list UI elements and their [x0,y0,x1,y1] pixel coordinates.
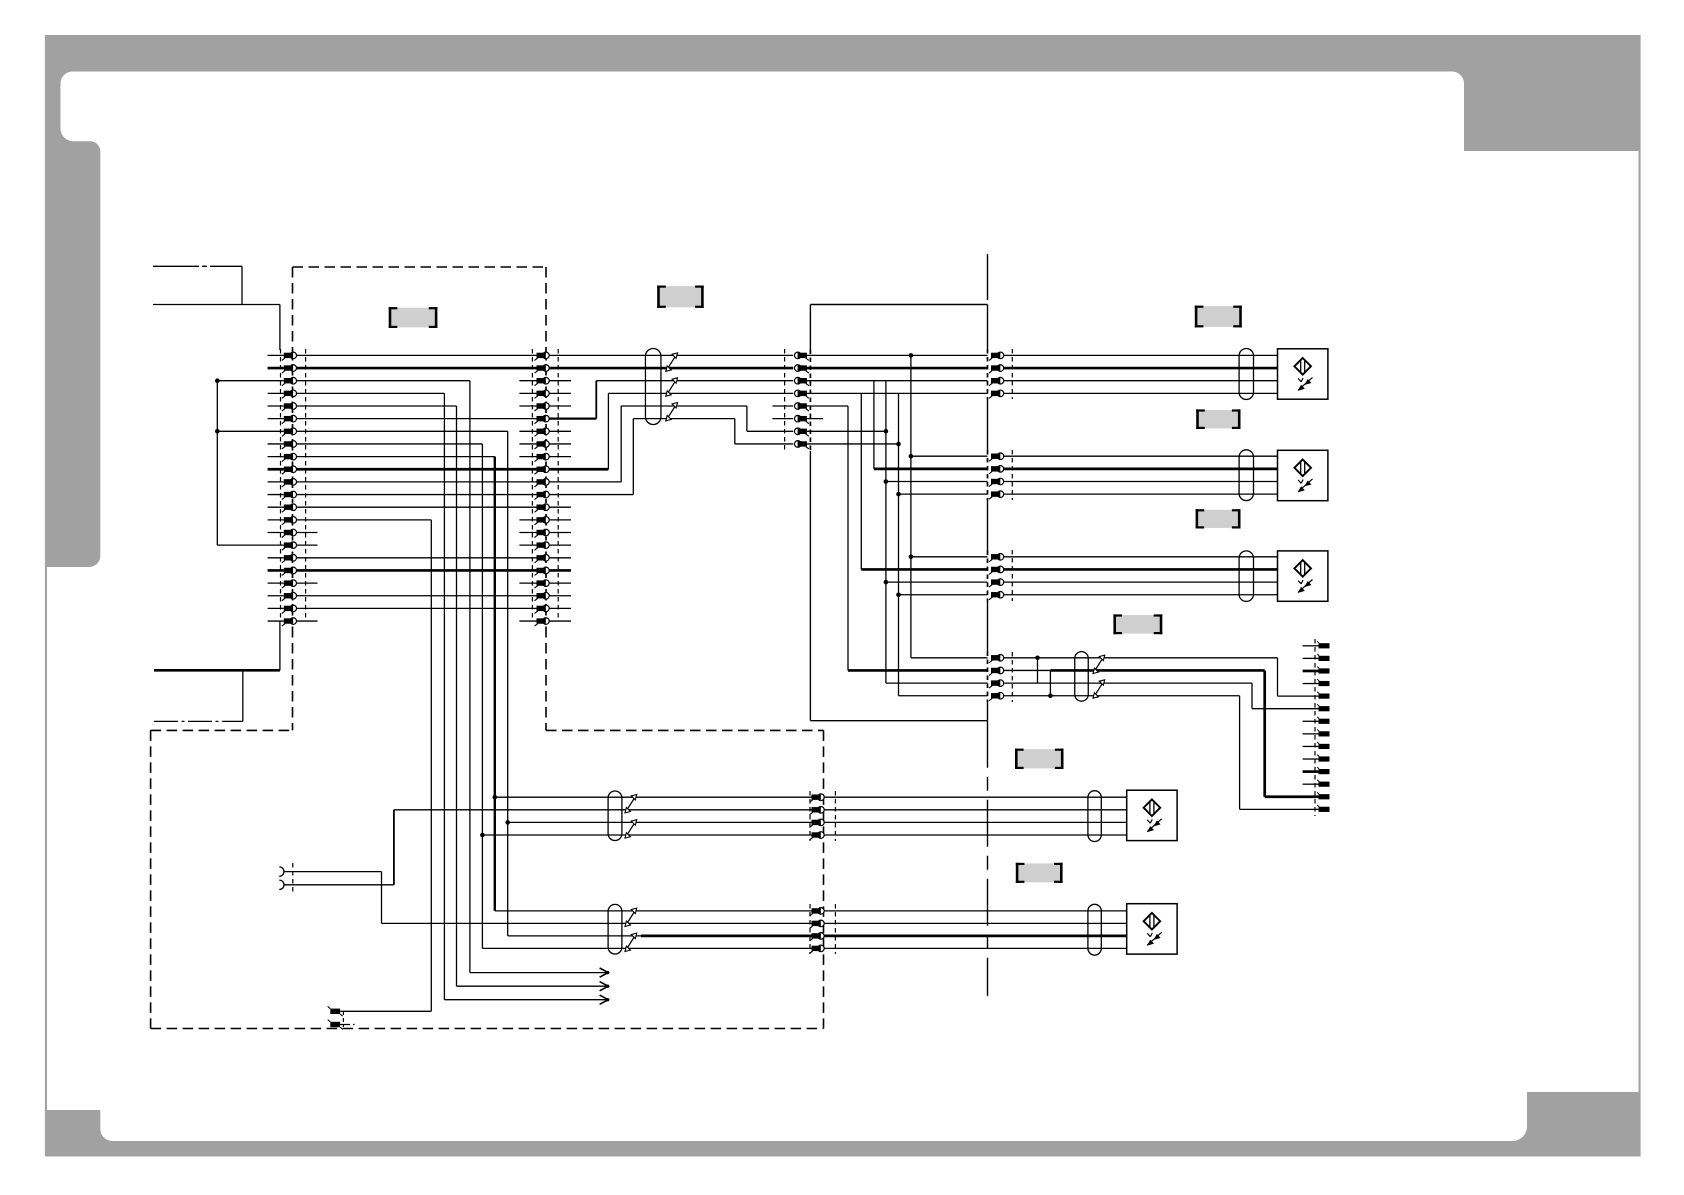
wire harness CN5 to sensor PS5 [824,911,1126,949]
signal arrows [444,968,609,1004]
photo-interrupter PS2 [1278,450,1328,500]
photo-interrupter PS4 [1127,790,1177,840]
connector CN3 [785,349,809,452]
cable clamp FB9 [1088,904,1101,955]
module M1 (off-page block, top-left) [153,266,280,670]
wire stubs CN3 left [772,406,793,419]
cable clamp FB6 [608,791,637,841]
terminal T1 [328,1006,432,1016]
wire harness CN5 to sensor PS4 [824,797,1126,835]
wire harness CN2 to CN3 [549,355,794,494]
junction board box [810,304,987,306]
module M2 (off-page block, bottom-left) [154,670,280,721]
cable clamp FB7 [608,904,637,954]
label L3 [1197,306,1239,327]
label L5 [1198,510,1238,528]
net: left bus with junctions [215,378,284,545]
connector CN6 [1315,639,1330,816]
cable clamp FB8 [1088,791,1101,842]
label L1 [391,308,435,328]
cable clamp FB5 [1075,652,1105,702]
wire net inside junction board [806,353,987,696]
wire stubs CN2 right [549,381,572,621]
wire stubs CN1 left [268,355,284,621]
wire bundle to lower harness [296,381,508,1011]
label L6 [1116,615,1160,634]
label L7 [1018,749,1061,768]
wire stubs CN1 right [296,533,318,622]
connector CN1 [281,349,306,626]
photo-interrupter PS1 [1278,349,1328,399]
terminal T2 [328,1011,357,1029]
wire harness CN4 group 2 to sensor [1004,456,1278,494]
connector CN5 [810,791,836,954]
connector CN2 [532,349,558,626]
wire harness to CN5 [480,795,811,949]
wire harness CN4 group 1 to sensor [1004,355,1278,393]
wire stubs CN6 [1303,646,1319,784]
wire harness CN4 group 4 to CN6 [1004,656,1319,810]
cable clamp FB4 [1239,551,1253,602]
cable clamp FB2 [1239,349,1253,400]
wire bus CN1 to CN2 [296,355,537,608]
wire pair plug P1 [284,810,811,924]
cable clamp FB1 [645,349,677,425]
cable clamp FB3 [1239,450,1253,501]
section cut line [987,254,989,305]
wire harness CN4 group 3 to sensor [1004,557,1278,595]
wire stubs CN2 left [519,381,536,621]
photo-interrupter PS3 [1278,551,1328,601]
label L8 [1018,863,1060,882]
label L4 [1199,410,1238,428]
main PCB dashed outline [293,266,547,268]
photo-interrupter PS5 [1127,904,1177,954]
plug P1 [279,863,293,893]
connector CN4 [989,349,1012,702]
label L2 [660,286,701,307]
